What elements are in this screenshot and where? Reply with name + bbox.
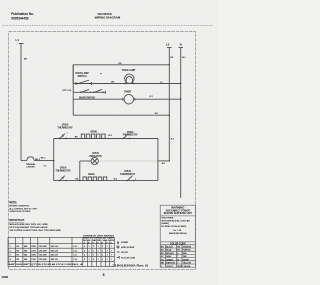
svg-text:1B: 1B — [16, 259, 19, 261]
svg-text:1B: 1B — [16, 255, 19, 257]
oven thermostat TH4 — [120, 171, 136, 181]
wire indicator branch vertical — [79, 161, 81, 181]
svg-text:240-120: 240-120 — [51, 254, 59, 257]
svg-text:BROWN: BROWN — [166, 253, 174, 255]
svg-text:(BAKE AND BROIL): (BAKE AND BROIL) — [169, 232, 187, 235]
svg-text:C95-36B: C95-36B — [39, 250, 48, 252]
svg-text:NO. 4: NO. 4 — [72, 263, 83, 266]
svg-text:2: 2 — [102, 255, 103, 257]
svg-text:RED: RED — [183, 253, 188, 255]
svg-text:THERMOSTAT: THERMOSTAT — [55, 169, 71, 172]
oven thermostat TH3 — [55, 168, 71, 182]
bake element — [83, 173, 107, 181]
svg-text:ALL CONTROL SET TO "OFF": ALL CONTROL SET TO "OFF" — [9, 207, 37, 210]
svg-text:1: 1 — [89, 246, 90, 248]
svg-text:LAB STYLE CODE: LAB STYLE CODE — [50, 263, 72, 266]
wire indicator line right to L2 — [98, 160, 158, 162]
svg-text:7: 7 — [111, 250, 112, 252]
svg-text:IMPORTANT:: IMPORTANT: — [9, 218, 24, 222]
svg-text:LIMITER: LIMITER — [27, 167, 36, 169]
wire L2 vertical — [168, 48, 170, 161]
page frame — [9, 32, 196, 270]
svg-text:DISCONNECT POWER: DISCONNECT POWER — [166, 210, 190, 212]
svg-text:THERMOSTAT: THERMOSTAT — [57, 126, 73, 129]
svg-text:(LABEL): (LABEL) — [161, 222, 169, 225]
oven lamp — [122, 69, 136, 84]
L1 terminal tick — [19, 43, 24, 45]
svg-text:THERMAL: THERMAL — [26, 163, 37, 166]
svg-text:WIRING DIAGRAM: WIRING DIAGRAM — [95, 16, 121, 20]
svg-text:7: 7 — [111, 255, 112, 257]
svg-text:THERMOSTAT: THERMOSTAT — [122, 134, 138, 137]
svg-text:USE COPPER CONDUCTORS ONLY TYP: USE COPPER CONDUCTORS ONLY TYPE SRML WIR… — [9, 230, 61, 232]
wire broil row — [54, 138, 158, 140]
legend screw — [117, 246, 119, 248]
wire lamp box top edge — [73, 65, 169, 84]
svg-text:BAKE: BAKE — [88, 173, 95, 176]
svg-text:2: 2 — [102, 246, 103, 248]
svg-text:1: 1 — [98, 250, 99, 252]
svg-text:OVEN: OVEN — [124, 171, 131, 173]
svg-text:SPLICE: SPLICE — [121, 252, 129, 254]
svg-text:1: 1 — [89, 250, 90, 252]
svg-text:OR ITS EQUIVALENT TYPE AND GAU: OR ITS EQUIVALENT TYPE AND GAUGE — [9, 226, 48, 229]
svg-text:31B01B200A Rev. B: 31B01B200A Rev. B — [113, 263, 149, 267]
svg-text:7: 7 — [111, 259, 112, 261]
wire node vertical — [53, 139, 55, 181]
L2 terminal tick — [167, 47, 172, 49]
svg-text:240-120: 240-120 — [51, 249, 59, 252]
svg-text:TIMER: TIMER — [124, 91, 131, 93]
wire timer line — [73, 98, 124, 100]
svg-text:NOTE:: NOTE: — [9, 200, 17, 204]
svg-text:1-2-1: 1-2-1 — [73, 250, 77, 252]
door switch SW3 — [93, 89, 106, 93]
svg-text:REPLACE WIRE ONLY WITH 105 C W: REPLACE WIRE ONLY WITH 105 C WIRE — [9, 223, 48, 226]
svg-text:1: 1 — [89, 259, 90, 261]
svg-text:No. 1 1B: No. 1 1B — [173, 230, 181, 232]
svg-text:1750: 1750 — [31, 250, 36, 252]
wire feed to node — [34, 160, 54, 162]
svg-text:ORANGE: ORANGE — [183, 246, 192, 249]
svg-text:BEFORE SERVICING UNIT: BEFORE SERVICING UNIT — [164, 213, 193, 215]
svg-text:NO WIRE GYR ALSO (BNR): NO WIRE GYR ALSO (BNR) — [161, 225, 186, 228]
wire L1 feed elbow — [21, 160, 27, 162]
svg-text:10/98: 10/98 — [1, 275, 8, 279]
svg-text:OVEN: OVEN — [60, 168, 67, 170]
svg-text:L1: L1 — [16, 38, 20, 42]
svg-text:WARNING: WARNING — [171, 206, 184, 210]
svg-text:COLOR CODE: COLOR CODE — [170, 242, 186, 245]
svg-text:QTY: QTY — [31, 264, 38, 266]
svg-text:1-2-1: 1-2-1 — [73, 246, 77, 248]
svg-text:PURPLE: PURPLE — [183, 250, 192, 252]
oven lamp switch SW1 — [75, 72, 91, 85]
svg-text:VIOLET: VIOLET — [166, 266, 174, 268]
svg-text:8: 8 — [103, 273, 105, 277]
svg-text:OVEN LAMP: OVEN LAMP — [75, 72, 89, 75]
svg-text:GREEN: GREEN — [166, 259, 173, 261]
legend frame ground — [117, 241, 119, 243]
svg-text:GRAY: GRAY — [166, 255, 172, 258]
N terminal tick — [178, 47, 183, 49]
svg-text:W-BK: W-BK — [177, 266, 183, 268]
oven indicator light DS1 — [89, 153, 102, 164]
oven thermostat TH2 — [122, 132, 138, 139]
perforation dashed line — [2, 24, 213, 26]
junction dots — [53, 64, 181, 181]
svg-text:FRAME: FRAME — [121, 241, 129, 244]
legend splice — [117, 251, 120, 253]
svg-text:WH-BK: WH-BK — [184, 266, 191, 268]
svg-text:2: 2 — [102, 259, 103, 261]
wire door switch line — [73, 91, 105, 93]
svg-text:1: 1 — [107, 250, 108, 252]
svg-text:3: 3 — [93, 250, 94, 252]
oven thermostat TH1 — [57, 125, 73, 140]
svg-text:1: 1 — [89, 255, 90, 257]
svg-text:5995344459: 5995344459 — [11, 17, 29, 21]
svg-text:MAROON: MAROON — [166, 262, 175, 265]
svg-text:SHOWN CONDITION:: SHOWN CONDITION: — [9, 206, 29, 208]
svg-text:1B: 1B — [16, 246, 19, 248]
wire oven lamp line — [73, 83, 181, 85]
ratings table — [8, 237, 114, 266]
svg-text:2350: 2350 — [31, 246, 36, 248]
svg-text:1B: 1B — [16, 250, 19, 252]
svg-text:OVEN: OVEN — [127, 132, 134, 134]
wire bake row — [54, 180, 158, 182]
wire indicator line left — [80, 160, 91, 162]
svg-text:3: 3 — [93, 255, 94, 257]
svg-text:1: 1 — [98, 255, 99, 257]
color code table — [160, 242, 195, 267]
svg-text:1: 1 — [107, 246, 108, 248]
svg-text:1750: 1750 — [31, 259, 36, 261]
svg-text:Publication No.: Publication No. — [11, 12, 34, 16]
svg-text:BLACK: BLACK — [166, 246, 173, 249]
svg-text:1-2-1: 1-2-1 — [73, 255, 77, 257]
door switch SW2 — [80, 89, 91, 93]
svg-text:OVEN: OVEN — [92, 153, 99, 155]
svg-text:1: 1 — [67, 133, 68, 135]
svg-text:SWITCH: SWITCH — [78, 76, 87, 78]
svg-text:OVEN LAMP: OVEN LAMP — [122, 69, 136, 72]
svg-text:OPT'L DS: OPT'L DS — [62, 90, 72, 92]
svg-text:BROIL: BROIL — [91, 131, 99, 133]
svg-text:L2: L2 — [166, 42, 170, 46]
svg-text:BLUE: BLUE — [166, 250, 172, 252]
wire N vertical — [180, 48, 182, 198]
svg-text:1: 1 — [107, 259, 108, 261]
svg-text:(GRD) SCREW: (GRD) SCREW — [121, 247, 134, 249]
wire W-1 line — [73, 114, 169, 116]
legend plug-in — [117, 256, 120, 258]
svg-text:3: 3 — [93, 246, 94, 248]
svg-text:WHITE: WHITE — [183, 259, 190, 261]
svg-text:1: 1 — [107, 255, 108, 257]
svg-text:TAN: TAN — [183, 255, 187, 258]
wire vertical connector x73 — [72, 65, 74, 115]
svg-text:OVEN DOOR CLOSED: OVEN DOOR CLOSED — [9, 211, 31, 213]
svg-text:1-2-1: 1-2-1 — [73, 259, 77, 261]
svg-text:2350: 2350 — [31, 255, 36, 257]
svg-text:WITH OEM RD 4 BK, GOR 4 BK: WITH OEM RD 4 BK, GOR 4 BK — [161, 219, 190, 222]
svg-text:BL STYLE: BL STYLE — [38, 264, 50, 266]
broil element — [81, 131, 105, 138]
warning box — [160, 205, 195, 268]
svg-text:N: N — [180, 42, 182, 46]
svg-text:1: 1 — [98, 246, 99, 248]
svg-text:OHM: OHM — [16, 264, 23, 266]
svg-text:240-120: 240-120 — [51, 258, 59, 261]
svg-text:C95-36B: C95-36B — [39, 246, 48, 248]
svg-text:YELLOW: YELLOW — [183, 263, 191, 265]
svg-text:240-120: 240-120 — [51, 245, 59, 248]
svg-text:C95-36B: C95-36B — [39, 255, 48, 257]
timer motor M1 — [123, 91, 135, 104]
svg-text:PLUG-IN CONN: PLUG-IN CONN — [121, 257, 136, 259]
svg-text:WATT: WATT — [23, 263, 30, 266]
svg-text:THIS R WIRE: THIS R WIRE — [161, 218, 173, 220]
svg-text:OVEN: OVEN — [62, 125, 69, 127]
svg-text:3: 3 — [93, 259, 94, 261]
wire box right edge — [157, 139, 159, 181]
svg-text:C95-36B: C95-36B — [39, 259, 48, 261]
fuse hump F1 — [27, 157, 34, 161]
svg-text:2: 2 — [102, 250, 103, 252]
wire L1 vertical — [20, 44, 22, 161]
svg-text:2: 2 — [135, 179, 136, 181]
svg-text:AMP: AMP — [9, 263, 16, 266]
svg-text:THERMOSTAT: THERMOSTAT — [120, 173, 136, 176]
svg-text:W: W — [177, 259, 179, 261]
legend — [117, 241, 136, 260]
svg-text:1: 1 — [98, 259, 99, 261]
svg-text:7: 7 — [111, 246, 112, 248]
